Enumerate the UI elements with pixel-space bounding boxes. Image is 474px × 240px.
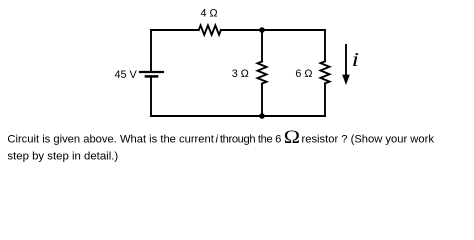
battery V1 short plate [146,75,157,78]
node junction bottom [259,113,265,119]
svg-text:45 V: 45 V [115,69,138,81]
svg-text:i: i [216,133,219,145]
wire left bottom (bottom-left corner to battery -) [150,77,152,116]
svg-text:4 Ω: 4 Ω [201,8,218,20]
svg-text:6 Ω: 6 Ω [295,68,312,80]
battery V1 long plate [140,71,163,73]
svg-text:resistor ? (Show your work: resistor ? (Show your work [302,133,435,145]
wire top left segment [151,29,199,31]
current arrow line [345,45,347,76]
resistor R1 4-ohm zigzag [199,25,221,34]
svg-text:through the 6: through the 6 [220,133,281,145]
svg-text:step by step in detail.): step by step in detail.) [7,151,118,163]
node junction top [259,27,265,33]
wire top right segment [221,29,325,31]
svg-text:Ω: Ω [284,127,300,147]
wire middle branch lower [261,84,263,116]
wire middle branch upper [261,30,263,62]
svg-text:i: i [352,48,359,70]
wire bottom [151,115,325,117]
wire left top (battery + to top-left corner) [150,30,152,71]
wire right side upper (to 6-ohm) [324,30,326,61]
resistor R2 3-ohm zigzag [258,62,267,84]
resistor R3 6-ohm zigzag [321,61,330,83]
svg-text:3 Ω: 3 Ω [232,68,249,80]
svg-text:Circuit is given above. What i: Circuit is given above. What is the curr… [7,133,214,145]
current arrow head [342,75,350,85]
wire right side lower [324,83,326,116]
